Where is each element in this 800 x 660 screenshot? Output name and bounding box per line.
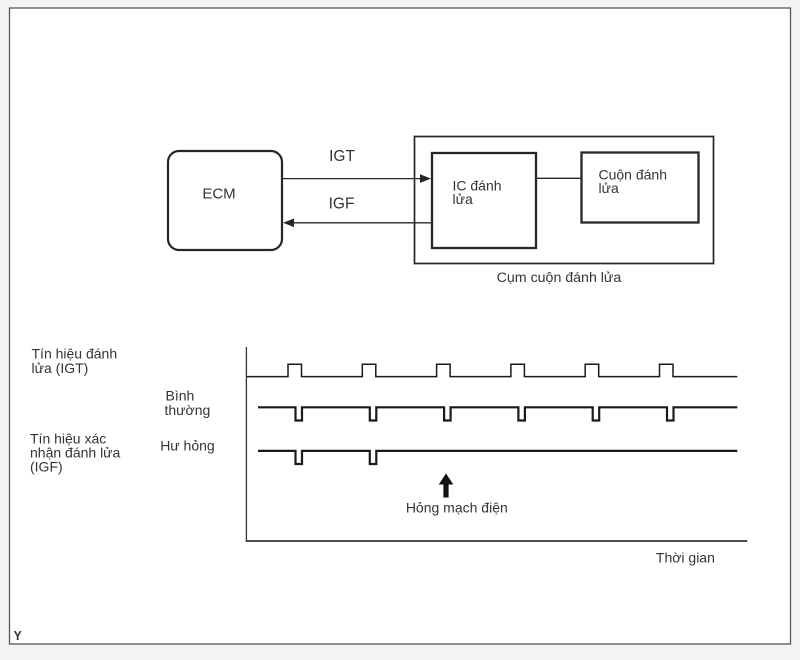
waveform IGT signal xyxy=(247,364,738,376)
svg-text:Hư hỏng: Hư hỏng xyxy=(160,438,215,454)
waveform IGF fault (Hư hỏng) xyxy=(258,451,737,464)
wire igniter IC to ignition coil xyxy=(536,177,582,179)
svg-text:lửa: lửa xyxy=(599,180,619,196)
svg-text:(IGF): (IGF) xyxy=(30,459,63,475)
svg-text:thường: thường xyxy=(165,402,211,418)
svg-text:Cụm cuộn đánh lửa: Cụm cuộn đánh lửa xyxy=(497,270,622,286)
label Tín hiệu đánh lửa (IGT) xyxy=(32,346,118,376)
svg-text:Hỏng mạch điện: Hỏng mạch điện xyxy=(406,500,508,516)
svg-text:lửa (IGT): lửa (IGT) xyxy=(32,360,89,376)
svg-text:Thời gian: Thời gian xyxy=(656,550,715,566)
block Cuộn đánh lửa (ignition coil) L1 xyxy=(582,153,699,223)
box ignition coil assembly xyxy=(415,137,714,264)
axis horizontal (time axis) xyxy=(246,540,748,542)
waveform IGF normal (Bình thường) xyxy=(258,407,737,420)
label Bình thường xyxy=(165,387,211,417)
block ECM xyxy=(168,151,282,250)
svg-text:IGF: IGF xyxy=(329,195,355,212)
svg-text:Y: Y xyxy=(14,629,23,643)
fault arrow marker (hỏng mạch điện pointer) xyxy=(439,474,454,498)
svg-text:ECM: ECM xyxy=(202,186,235,203)
svg-text:lửa: lửa xyxy=(453,191,473,207)
block IC đánh lửa (igniter IC) U1 xyxy=(432,153,536,248)
axis vertical (signal axis) xyxy=(245,347,247,541)
wire IGT (ECM to igniter) xyxy=(283,174,431,183)
label Tín hiệu xác nhận đánh lửa (IGF) xyxy=(30,431,121,475)
svg-text:IGT: IGT xyxy=(329,148,355,165)
wire IGF (igniter to ECM) xyxy=(283,219,431,228)
